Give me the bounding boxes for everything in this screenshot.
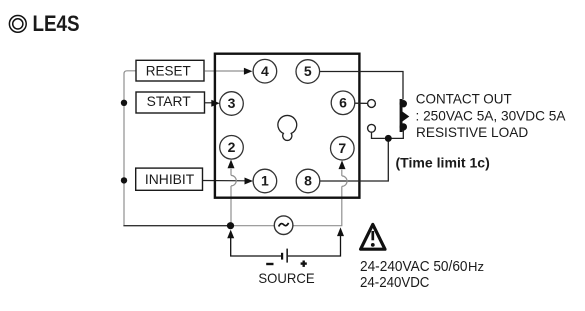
svg-text:: 250VAC 5A, 30VDC 5A: : 250VAC 5A, 30VDC 5A bbox=[416, 108, 567, 123]
svg-text:7: 7 bbox=[338, 140, 346, 156]
svg-text:3: 3 bbox=[228, 95, 236, 111]
svg-text:CONTACT OUT: CONTACT OUT bbox=[416, 91, 512, 106]
svg-text:8: 8 bbox=[304, 173, 312, 189]
svg-text:1: 1 bbox=[261, 173, 269, 189]
svg-text:2: 2 bbox=[228, 139, 236, 155]
svg-text:SOURCE: SOURCE bbox=[258, 271, 314, 286]
svg-text:INHIBIT: INHIBIT bbox=[145, 172, 195, 187]
svg-text:24-240VDC: 24-240VDC bbox=[360, 275, 429, 291]
svg-text:Hz: Hz bbox=[468, 260, 484, 274]
svg-text:RESISTIVE LOAD: RESISTIVE LOAD bbox=[416, 125, 528, 140]
svg-text:START: START bbox=[147, 94, 192, 109]
svg-text:(Time limit 1c): (Time limit 1c) bbox=[396, 155, 490, 171]
svg-text:24-240VAC 50/60: 24-240VAC 50/60 bbox=[360, 259, 468, 275]
svg-text:LE4S: LE4S bbox=[33, 11, 80, 36]
svg-text:6: 6 bbox=[339, 94, 347, 110]
svg-text:4: 4 bbox=[261, 63, 269, 79]
svg-text:5: 5 bbox=[304, 63, 312, 79]
svg-text:RESET: RESET bbox=[146, 64, 192, 79]
